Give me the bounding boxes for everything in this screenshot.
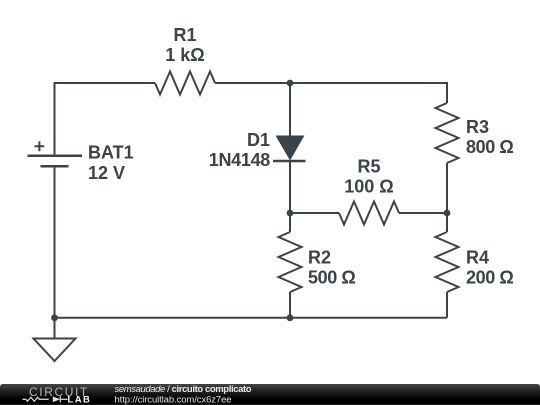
svg-text:100 Ω: 100 Ω [344,177,393,197]
svg-text:R5: R5 [357,157,380,177]
svg-text:R1: R1 [173,25,196,45]
svg-text:LAB: LAB [68,395,92,405]
svg-text:semsaudade / circuito complica: semsaudade / circuito complicato [115,384,252,395]
svg-text:500 Ω: 500 Ω [308,268,355,288]
svg-text:R2: R2 [308,248,331,268]
svg-text:R3: R3 [466,117,489,137]
svg-text:R4: R4 [466,248,489,268]
svg-text:BAT1: BAT1 [88,143,134,163]
svg-text:800 Ω: 800 Ω [466,137,513,157]
svg-text:1N4148: 1N4148 [209,150,271,170]
svg-text:1 kΩ: 1 kΩ [165,45,204,65]
svg-text:200 Ω: 200 Ω [466,268,513,288]
svg-text:12 V: 12 V [88,163,125,183]
svg-text:D1: D1 [247,130,270,150]
svg-text:http://circuitlab.com/cx6z7ee: http://circuitlab.com/cx6z7ee [115,395,232,405]
